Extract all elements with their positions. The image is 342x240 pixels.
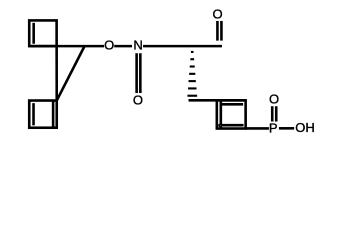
double bond inner line (right ring, top edge) xyxy=(221,103,243,106)
double bond P=O line 1 xyxy=(271,106,274,121)
cyclobutene ring (bottom-right square) xyxy=(217,100,246,128)
double bond N=O line 1 xyxy=(135,53,138,93)
bond P-OH xyxy=(279,127,294,130)
tiny s mark at ring corner xyxy=(219,124,222,128)
double bond P=O line 2 xyxy=(275,106,278,121)
double bond C=O aldehyde line 1 xyxy=(216,21,219,41)
svg-text:P: P xyxy=(269,121,278,136)
double bond inner line (right ring, bottom edge) xyxy=(221,124,244,127)
double bond inner line (top-left ring, left edge) xyxy=(32,23,35,44)
cyclobutadiene ring (bottom-left square) xyxy=(29,101,57,128)
svg-text:O: O xyxy=(104,37,114,52)
bond CH2 to ring + ring top edge xyxy=(189,99,246,102)
svg-text:N: N xyxy=(133,37,142,52)
double bond inner line (bottom-left ring, left edge) xyxy=(32,103,35,125)
bond: chain horizontal from ring corner to O xyxy=(29,45,104,48)
double bond C=O aldehyde line 2 xyxy=(220,21,223,41)
svg-text:O: O xyxy=(269,92,279,107)
double bond inner line (right ring, left edge) xyxy=(220,101,223,126)
cyclobutene ring (top-left square) xyxy=(29,20,56,46)
svg-text:O: O xyxy=(212,6,222,21)
bond N-CH chain horizontal xyxy=(143,45,222,48)
double bond N=O line 2 xyxy=(139,53,142,93)
double bond inner line (bottom-left ring, right edge) xyxy=(52,101,55,127)
svg-text:O: O xyxy=(133,92,143,107)
bond O-N xyxy=(114,45,132,48)
hashed wedge bond (stereo) xyxy=(187,52,197,96)
bond: spiro corner down to bottom ring (long vertical) xyxy=(55,46,58,100)
svg-text:OH: OH xyxy=(295,120,315,135)
bond ring to P xyxy=(246,127,269,130)
bond: diagonal from CH down to bottom ring corner xyxy=(57,46,85,100)
